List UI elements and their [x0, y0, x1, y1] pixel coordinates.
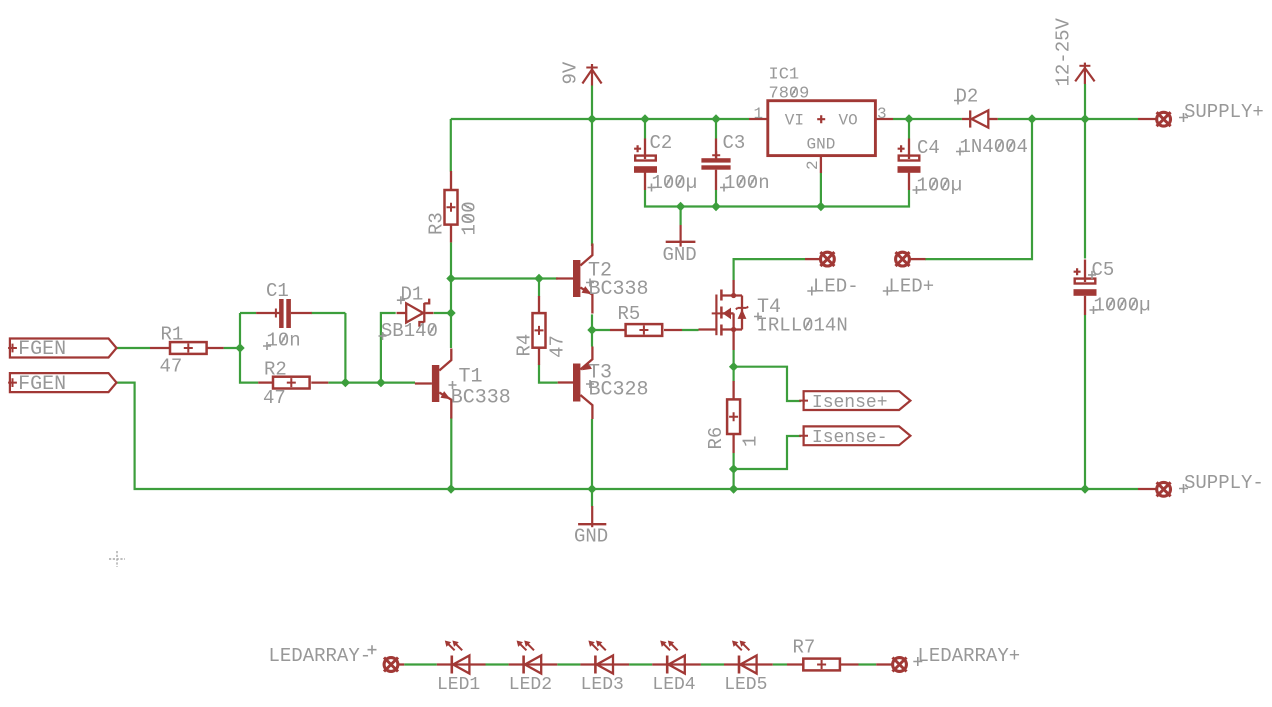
wire LED2 to LED3 [557, 663, 580, 665]
svg-text:C3: C3 [723, 132, 746, 154]
value D1 SB140 [381, 320, 438, 342]
svg-text:GND: GND [663, 244, 697, 266]
supply 9V arrow [582, 64, 601, 86]
label T3 [588, 362, 612, 385]
svg-text:GND: GND [574, 526, 608, 548]
svg-text:LED4: LED4 [652, 675, 695, 695]
transistor T4 IRLL014N [699, 280, 749, 350]
svg-text:12-25V: 12-25V [1053, 17, 1075, 86]
junction node G [729, 362, 738, 371]
origin cross LED- [807, 287, 816, 296]
svg-text:LEDARRAY-: LEDARRAY- [269, 645, 372, 667]
label C1 [266, 280, 289, 302]
value R2 47 [263, 387, 286, 409]
supply 12-25V arrow [1075, 63, 1094, 84]
value IC1 7809 [769, 85, 810, 104]
label LED5 [724, 675, 767, 695]
LED LED2 [509, 641, 558, 674]
wire C5 bottom to rail [1084, 315, 1086, 489]
junction C4 rail [904, 114, 913, 123]
label D2 [956, 86, 979, 108]
label C5 [1092, 259, 1115, 281]
value D2 1N4004 [960, 136, 1028, 158]
wire node B to node C [345, 382, 381, 384]
label T4 [757, 296, 781, 319]
LED LED5 [724, 641, 773, 674]
ground GND bottom symbol [578, 506, 606, 527]
label 12-25V [1053, 17, 1075, 86]
wire node H to Isense- flag [734, 436, 801, 469]
ground GND top symbol [666, 225, 696, 247]
svg-text:SUPPLY+: SUPPLY+ [1184, 101, 1264, 123]
label R7 [793, 637, 816, 659]
svg-text:1: 1 [754, 105, 764, 123]
origin cross LED+ [883, 287, 892, 296]
value R1 47 [160, 356, 183, 378]
wire R6 bottom to node H [732, 453, 734, 489]
capacitor C3 [701, 139, 730, 191]
connector flag Isense- [799, 426, 910, 448]
svg-text:D1: D1 [401, 284, 424, 306]
svg-text:LEDARRAY+: LEDARRAY+ [918, 645, 1021, 667]
junction T1 emitter rail [446, 484, 455, 493]
wire C2 top pin [644, 119, 646, 139]
label T2 [588, 260, 612, 283]
label LED4 [652, 675, 695, 695]
svg-text:C2: C2 [650, 132, 673, 154]
origin cross SB140 [379, 332, 387, 340]
value T2 BC338 [589, 278, 649, 301]
value R4 47 [546, 335, 568, 358]
pad LED+ [896, 252, 926, 266]
resistor R5 [610, 324, 682, 336]
svg-text:9V: 9V [559, 61, 581, 84]
wire LED5 to R7 [773, 663, 787, 665]
wire T4 drain node to LED- pad [734, 259, 805, 280]
svg-text:2: 2 [804, 160, 822, 170]
svg-text:47: 47 [546, 335, 568, 358]
svg-text:R4: R4 [514, 334, 536, 357]
connector flag Isense+ [799, 391, 910, 413]
wire rail corner down to R3 [450, 119, 452, 172]
wire LED+ pad to top rail [925, 119, 1032, 259]
wire C4 top pin [908, 119, 910, 139]
svg-text:IRLL014N: IRLL014N [757, 315, 848, 337]
origin cross LEDARRAY- [368, 645, 377, 654]
svg-text:R6: R6 [705, 427, 727, 450]
svg-text:D2: D2 [956, 86, 979, 108]
diode D1 SB140 [397, 299, 434, 327]
svg-text:100µ: 100µ [652, 172, 698, 194]
svg-text:R3: R3 [426, 212, 448, 235]
label GND bottom [574, 526, 608, 548]
transistor T3 BC328 [558, 347, 593, 420]
svg-text:Isense+: Isense+ [812, 393, 888, 413]
wire node C to T1 base [381, 382, 415, 384]
svg-text:LED-: LED- [813, 276, 859, 298]
wire bottom rail to GND [591, 489, 593, 507]
origin cross T3 [586, 380, 594, 388]
svg-text:100n: 100n [724, 172, 770, 194]
connector flag FGEN (top) [8, 338, 116, 361]
origin cross 100u C4 [913, 186, 921, 194]
svg-text:BC338: BC338 [589, 278, 649, 301]
label SUPPLY+ [1184, 101, 1264, 123]
origin cross D1 [397, 296, 405, 304]
svg-text:LED+: LED+ [889, 276, 935, 298]
wire node C up to D1 anode [381, 313, 396, 383]
svg-text:IC1: IC1 [769, 66, 800, 85]
wire LEDARRAY- pad to LED1 [404, 663, 437, 665]
wire 12-25V arrow to rail [1084, 84, 1086, 119]
label LED+ [889, 276, 935, 298]
resistor R3 [445, 171, 458, 242]
label T1 [459, 366, 483, 389]
label R6 [705, 427, 727, 450]
svg-text:VI: VI [785, 112, 804, 130]
wire top rail left segment [451, 118, 749, 120]
svg-text:C1: C1 [266, 280, 289, 302]
origin cross SUPPLY- [1179, 484, 1188, 493]
label LEDARRAY- [269, 645, 372, 667]
connector flag FGEN (bottom) [8, 373, 116, 396]
label LEDARRAY+ [918, 645, 1021, 667]
wire top rail middle segment [893, 118, 962, 120]
label IC1 [769, 66, 800, 85]
wire node E to T2 base [451, 277, 558, 279]
junction R6 rail [729, 484, 738, 493]
label SUPPLY- [1184, 472, 1264, 494]
value C2 100u [652, 172, 698, 194]
junction GND rail [676, 202, 685, 211]
pad LEDARRAY+ [876, 658, 906, 672]
wire T1 emitter to bottom rail [450, 418, 452, 490]
svg-text:LED5: LED5 [724, 675, 767, 695]
junction node A [235, 343, 244, 352]
svg-text:47: 47 [263, 387, 286, 409]
junction C3 gnd rail [711, 202, 720, 211]
svg-text:3: 3 [877, 105, 887, 123]
wire C3 bottom [715, 190, 717, 207]
junction R4 top [534, 274, 543, 283]
wire node G to Isense+ flag [734, 367, 801, 401]
wire R4 top [538, 279, 540, 297]
svg-text:SB140: SB140 [381, 320, 438, 342]
junction node F [587, 325, 596, 334]
value C3 100n [724, 172, 770, 194]
origin cross 1N4004 [956, 148, 964, 156]
svg-text:47: 47 [160, 356, 183, 378]
wire C3 top pin [715, 119, 717, 139]
junction C5 rail [1080, 484, 1089, 493]
label R2 [264, 359, 287, 381]
resistor R6 [727, 381, 740, 453]
pad LED- [805, 252, 834, 266]
pin 1 VI [754, 105, 764, 123]
junction C2 rail [640, 114, 649, 123]
wire C5 top pin [1084, 119, 1086, 259]
label LED2 [509, 675, 552, 695]
text VO [839, 112, 858, 130]
value C4 100u [917, 175, 963, 197]
wire FGEN1 to R1 [117, 347, 151, 349]
value C5 1000u [1094, 295, 1151, 317]
junction IC1 gnd rail [816, 202, 825, 211]
junction D1 cathode [446, 308, 455, 317]
wire node A to C1 left and R2 left [240, 313, 345, 383]
wire R1 to node A [224, 347, 240, 349]
cross IC1 plus [817, 115, 825, 123]
svg-text:FGEN: FGEN [18, 373, 66, 396]
svg-text:R7: R7 [793, 637, 816, 659]
LED LED4 [652, 641, 701, 674]
label 9V [559, 61, 581, 84]
value T4 IRLL014N [757, 315, 848, 337]
origin cross T4 [754, 313, 762, 321]
wire IC1 ground pin to rail [820, 173, 822, 207]
capacitor C4 [898, 139, 921, 191]
junction node E [446, 274, 455, 283]
svg-text:C5: C5 [1092, 259, 1115, 281]
wire rail to GND symbol [679, 207, 681, 226]
pad SUPPLY+ [1138, 112, 1171, 126]
transistor T1 BC338 [415, 349, 451, 419]
wire node F to T3 emitter [591, 330, 593, 347]
label R3 [426, 212, 448, 235]
origin cross SUPPLY+ [1179, 113, 1188, 122]
transistor T2 BC338 [556, 244, 592, 314]
origin cross 100u C2 [648, 184, 656, 192]
origin cross T2 [586, 279, 594, 287]
resistor R1 [150, 342, 224, 354]
svg-text:1N4004: 1N4004 [960, 136, 1028, 158]
svg-text:1000µ: 1000µ [1094, 295, 1151, 317]
svg-text:FGEN: FGEN [18, 338, 66, 361]
svg-text:Isense-: Isense- [812, 428, 888, 448]
origin cross T1 [449, 381, 457, 389]
value R3 100 [459, 201, 481, 235]
label R5 [618, 303, 641, 325]
svg-text:1: 1 [740, 436, 762, 447]
svg-text:BC338: BC338 [451, 387, 511, 410]
wire LED3 to LED4 [629, 663, 652, 665]
wire R5 to T4 gate [682, 329, 699, 331]
wire D1 cathode to node D [434, 312, 451, 314]
svg-text:SUPPLY-: SUPPLY- [1184, 472, 1264, 494]
svg-text:VO: VO [839, 112, 858, 130]
sheet origin cross [109, 551, 125, 567]
wire R4 bottom to T3 base [539, 365, 558, 383]
junction node B [341, 378, 350, 387]
origin cross C5 [1088, 271, 1096, 279]
wire T3 collector to bottom rail [591, 419, 593, 489]
resistor R4 [533, 296, 546, 365]
wire 9V to rail and down to T2 collector [591, 86, 593, 247]
value T1 BC338 [451, 387, 511, 410]
svg-text:LED2: LED2 [509, 675, 552, 695]
wire C1 right down to node B [344, 313, 346, 383]
svg-text:BC328: BC328 [589, 379, 649, 402]
svg-text:R5: R5 [618, 303, 641, 325]
wire capacitor ground rail [645, 190, 909, 207]
wire R3 bottom to T1 collector [450, 242, 452, 348]
pin 3 VO [877, 105, 887, 123]
wire LED4 to LED5 [701, 663, 724, 665]
svg-text:LED1: LED1 [437, 675, 480, 695]
svg-text:100: 100 [459, 201, 481, 235]
label R1 [161, 324, 184, 346]
wire R7 to LEDARRAY+ pad [859, 663, 877, 665]
resistor R2 [258, 377, 328, 389]
pad SUPPLY- [1138, 482, 1171, 496]
label D1 [401, 284, 424, 306]
wire node F to R5 [592, 329, 610, 331]
value R6 1 [740, 436, 762, 447]
label C4 [917, 137, 940, 159]
capacitor C5 [1074, 260, 1097, 316]
pin 2 GND [804, 160, 822, 170]
wire top rail right segment [998, 118, 1138, 120]
label LED3 [581, 675, 624, 695]
svg-text:GND: GND [807, 136, 836, 154]
LED LED1 [437, 641, 486, 674]
wire LED1 to LED2 [486, 663, 509, 665]
value T3 BC328 [589, 379, 649, 402]
origin cross 1000u C5 [1090, 306, 1098, 314]
capacitor C2 [634, 139, 657, 191]
svg-text:100µ: 100µ [917, 175, 963, 197]
LED LED3 [580, 641, 629, 674]
junction 9V rail [587, 114, 596, 123]
value C1 10n [267, 330, 301, 352]
label C3 [723, 132, 746, 154]
text GND inside IC1 [807, 136, 836, 154]
svg-text:R2: R2 [264, 359, 287, 381]
svg-text:LED3: LED3 [581, 675, 624, 695]
wire FGEN2 down and bottom rail [117, 383, 1139, 489]
diode D2 1N4004 [962, 110, 998, 127]
op-amp U1 IC1 7809 regulator box [749, 101, 893, 173]
origin cross 10n [263, 342, 271, 350]
junction C3 rail [711, 114, 720, 123]
svg-text:7809: 7809 [769, 85, 810, 104]
svg-text:R1: R1 [161, 324, 184, 346]
label LED- [813, 276, 859, 298]
label R4 [514, 334, 536, 357]
junction LED+ rail [1027, 114, 1036, 123]
junction node C [376, 378, 385, 387]
junction T3 collector rail [587, 484, 596, 493]
origin cross 100n C3 [720, 184, 728, 192]
pad LEDARRAY- [384, 658, 404, 672]
resistor R7 [787, 659, 859, 671]
origin cross D2 [954, 97, 962, 105]
origin cross LEDARRAY+ [913, 657, 922, 666]
label LED1 [437, 675, 480, 695]
svg-text:C4: C4 [917, 137, 940, 159]
text VI [785, 112, 804, 130]
label C2 [650, 132, 673, 154]
label GND top [663, 244, 697, 266]
svg-text:10n: 10n [267, 330, 301, 352]
wire R2 right to node B [328, 382, 345, 384]
wire T2 emitter to node F [591, 314, 593, 330]
wire T4 source to node G [732, 350, 734, 382]
svg-text:T1: T1 [459, 366, 483, 389]
junction 12-25V rail [1080, 114, 1089, 123]
capacitor C1 [256, 299, 312, 328]
junction node H [729, 464, 738, 473]
